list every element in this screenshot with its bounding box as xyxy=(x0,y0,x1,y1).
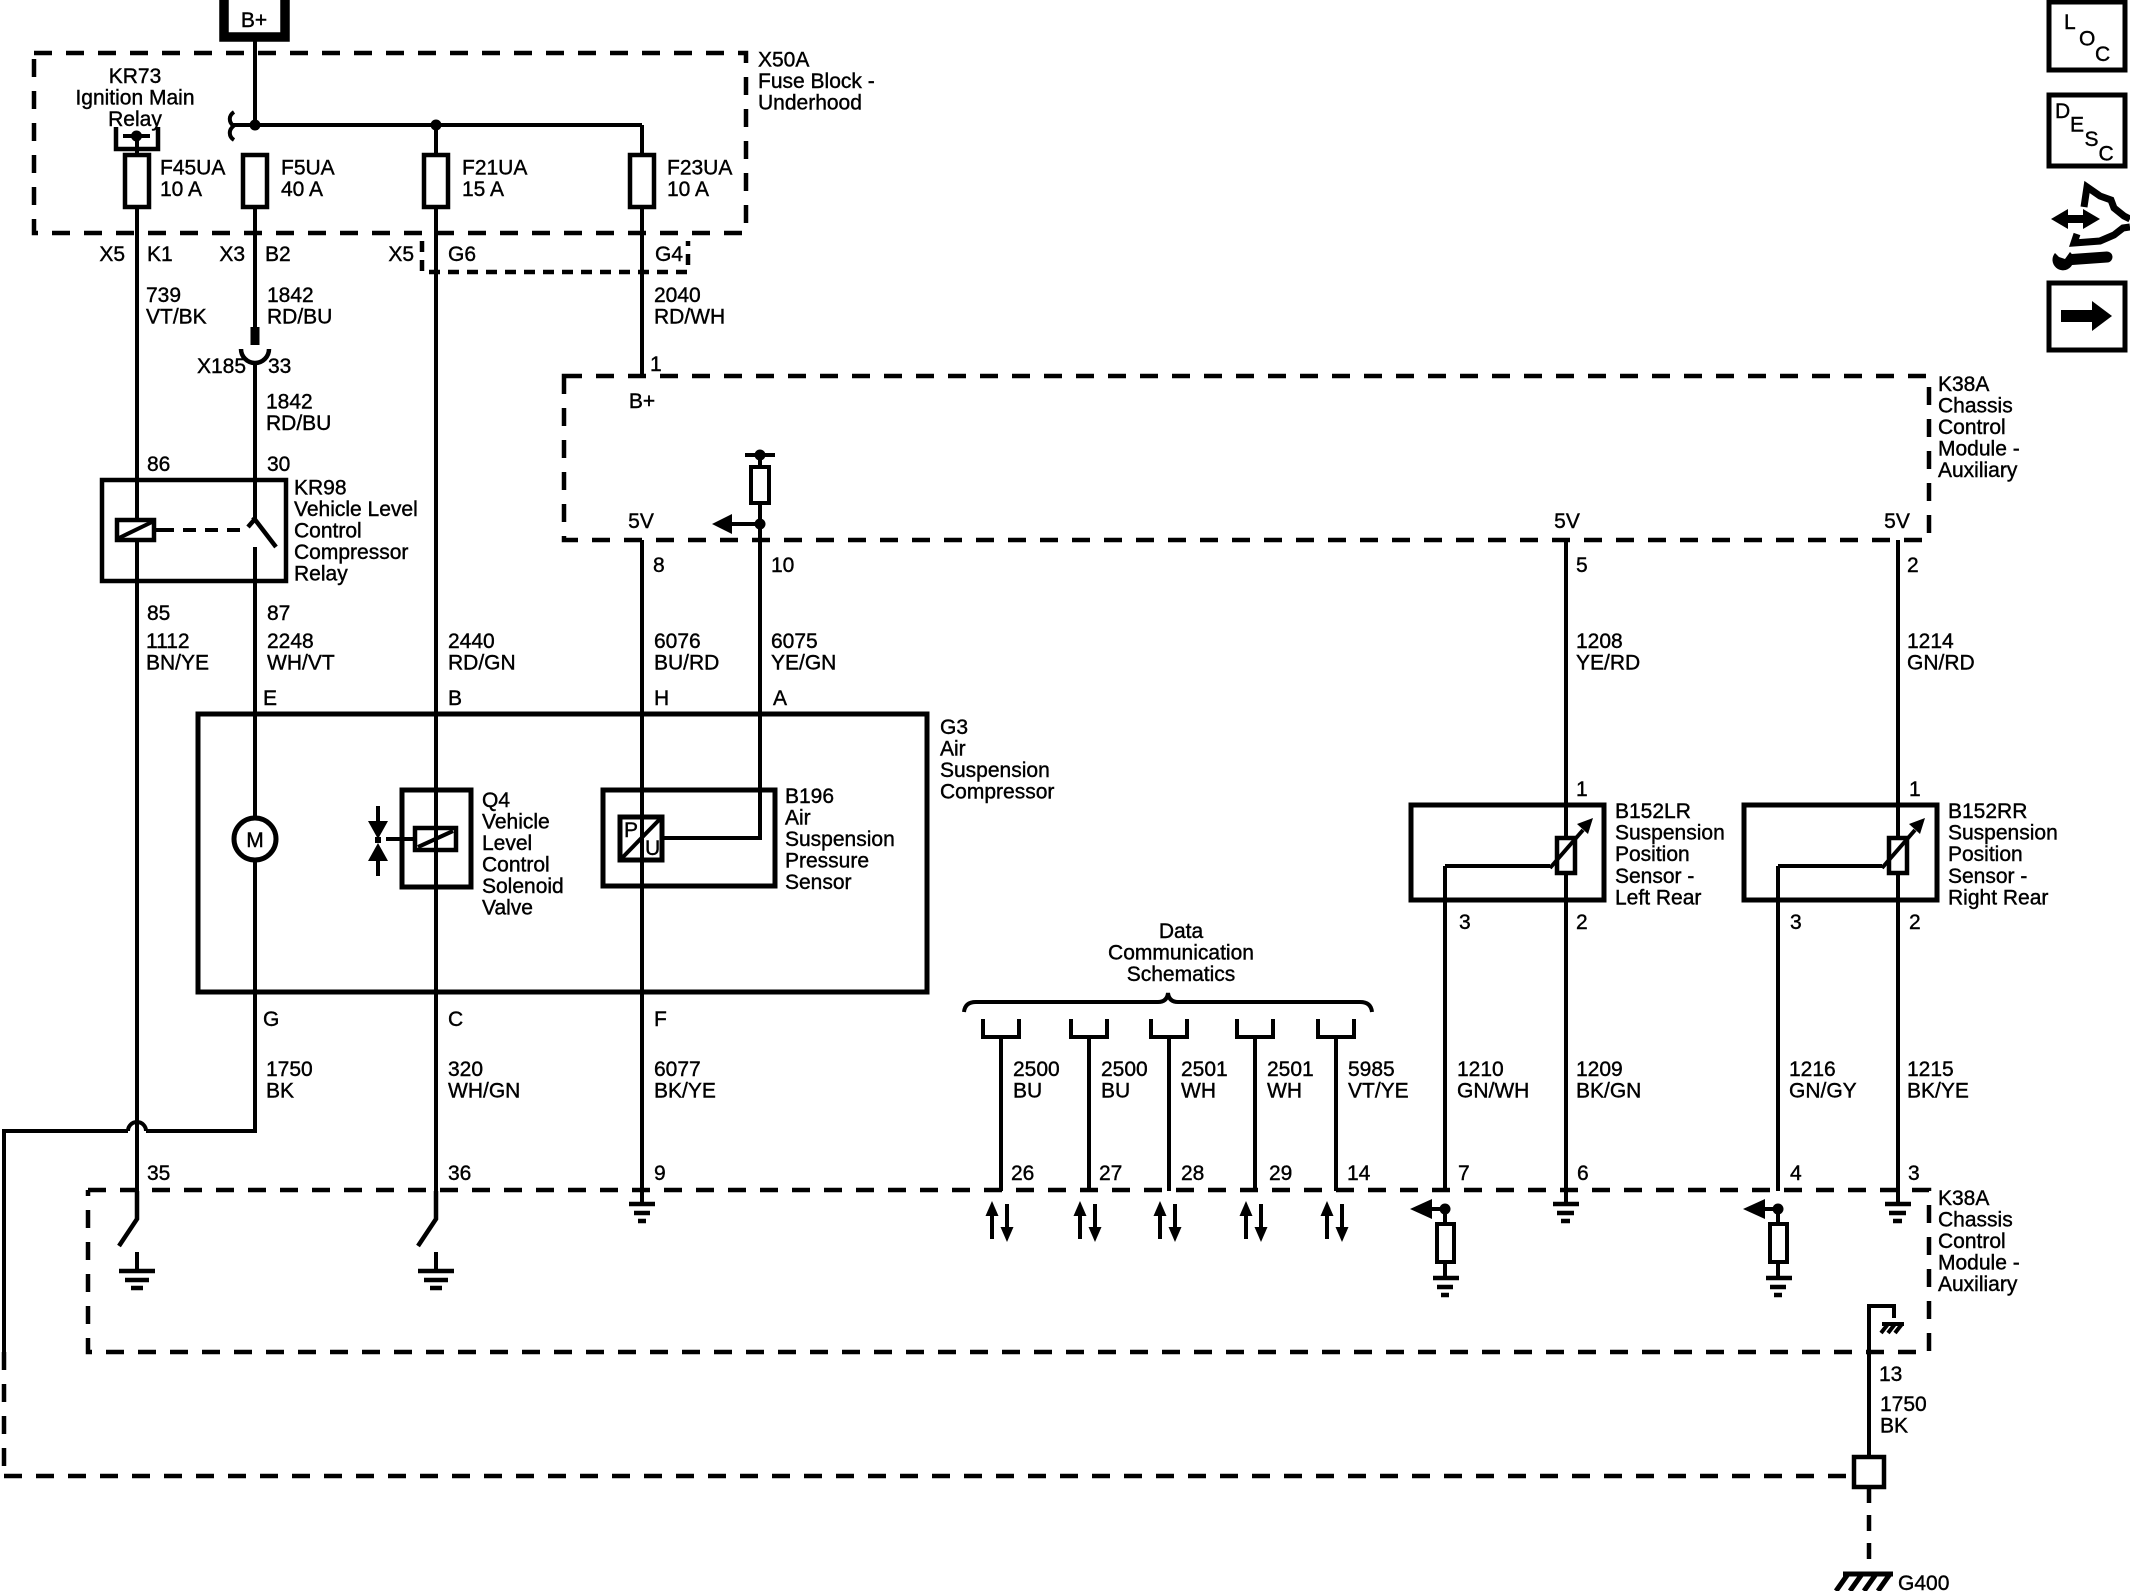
svg-text:2500: 2500 xyxy=(1013,1058,1060,1081)
svg-text:X5: X5 xyxy=(99,243,125,266)
svg-text:Auxiliary: Auxiliary xyxy=(1938,1273,2018,1296)
svg-text:VT/BK: VT/BK xyxy=(146,306,207,329)
wire 2248 WH/VT xyxy=(253,581,257,714)
svg-text:B: B xyxy=(448,687,462,710)
module K38A top dashed box xyxy=(564,376,1929,540)
solenoid Q4 box xyxy=(402,790,471,887)
bus wire xyxy=(233,123,642,127)
svg-text:8: 8 xyxy=(653,554,665,577)
svg-text:Compressor: Compressor xyxy=(940,781,1054,804)
svg-text:C: C xyxy=(2095,43,2110,66)
svg-text:Air: Air xyxy=(785,807,811,830)
data connector 5 xyxy=(1318,1019,1354,1037)
svg-text:L: L xyxy=(2064,11,2076,34)
svg-text:7: 7 xyxy=(1458,1162,1470,1185)
svg-text:2500: 2500 xyxy=(1101,1058,1148,1081)
motor M xyxy=(234,818,276,860)
svg-text:RD/BU: RD/BU xyxy=(267,306,332,329)
svg-text:3: 3 xyxy=(1459,911,1471,934)
svg-text:B2: B2 xyxy=(265,243,291,266)
internal signal arrow pin 10 xyxy=(730,522,760,526)
svg-text:E: E xyxy=(2070,114,2084,137)
svg-text:6077: 6077 xyxy=(654,1058,701,1081)
icon arrow box xyxy=(2049,283,2125,350)
wire 1214 GN/RD xyxy=(1896,540,1900,838)
svg-text:87: 87 xyxy=(267,602,290,625)
svg-text:1112: 1112 xyxy=(146,630,190,653)
svg-text:X50A: X50A xyxy=(758,49,809,72)
wire E to motor xyxy=(253,714,257,818)
svg-text:Left Rear: Left Rear xyxy=(1615,887,1701,910)
svg-text:14: 14 xyxy=(1347,1162,1371,1185)
svg-text:1: 1 xyxy=(1909,778,1921,801)
Q4 valve symbol xyxy=(376,806,380,821)
svg-text:Chassis: Chassis xyxy=(1938,395,2013,418)
fuse block X50A dashed box xyxy=(34,53,746,233)
ground pin 35 xyxy=(135,1252,139,1271)
icon double arrow xyxy=(2064,215,2087,223)
svg-text:B152LR: B152LR xyxy=(1615,800,1691,823)
wire 1750 BK from pin G xyxy=(146,992,255,1131)
svg-text:30: 30 xyxy=(267,453,290,476)
svg-text:Control: Control xyxy=(1938,1230,2006,1253)
svg-text:BK: BK xyxy=(266,1080,294,1103)
svg-text:1750: 1750 xyxy=(1880,1393,1927,1416)
svg-text:5: 5 xyxy=(1576,554,1588,577)
databus arrows pin 29 xyxy=(1246,1204,1261,1239)
svg-text:Module -: Module - xyxy=(1938,438,2020,461)
svg-text:GN/WH: GN/WH xyxy=(1457,1080,1529,1103)
internal chassis ground pin 13 xyxy=(1869,1306,1894,1352)
wire 739 VT/BK xyxy=(135,207,139,480)
wire bus to F21UA xyxy=(434,125,438,155)
svg-text:BU: BU xyxy=(1101,1080,1130,1103)
svg-text:2248: 2248 xyxy=(267,630,314,653)
svg-text:BK/GN: BK/GN xyxy=(1576,1080,1641,1103)
svg-text:Sensor -: Sensor - xyxy=(1948,865,2027,888)
svg-text:6076: 6076 xyxy=(654,630,701,653)
wire motor to pin G xyxy=(253,860,257,992)
svg-text:9: 9 xyxy=(654,1162,666,1185)
svg-text:320: 320 xyxy=(448,1058,483,1081)
svg-text:Communication: Communication xyxy=(1108,942,1254,965)
svg-text:85: 85 xyxy=(147,602,170,625)
data brace xyxy=(964,993,1372,1012)
svg-text:BK/YE: BK/YE xyxy=(1907,1080,1969,1103)
svg-text:F5UA: F5UA xyxy=(281,157,335,180)
wire LR pin 2 xyxy=(1564,873,1568,1191)
module K38A bottom dashed box xyxy=(88,1190,1929,1352)
svg-text:BU/RD: BU/RD xyxy=(654,652,719,675)
svg-text:1: 1 xyxy=(1576,778,1588,801)
databus arrows pin 14 xyxy=(1327,1204,1342,1239)
data connector 1 xyxy=(983,1019,1019,1037)
svg-text:G: G xyxy=(263,1008,279,1031)
svg-text:Solenoid: Solenoid xyxy=(482,875,564,898)
dashed ground distribution left riser xyxy=(2,1352,7,1476)
connector X5 dashed outline xyxy=(422,241,688,272)
wire 6076 BU/RD xyxy=(640,540,644,714)
svg-text:Suspension: Suspension xyxy=(1948,822,2058,845)
svg-text:2: 2 xyxy=(1909,911,1921,934)
wire B through Q4 xyxy=(434,714,438,992)
svg-text:G400: G400 xyxy=(1898,1572,1949,1591)
svg-text:36: 36 xyxy=(448,1162,471,1185)
internal arrow pin 4 xyxy=(1765,1207,1778,1211)
svg-text:Vehicle: Vehicle xyxy=(482,811,550,834)
icon LOC box xyxy=(2049,2,2125,70)
ground pin 6 xyxy=(1564,1191,1568,1204)
svg-text:2440: 2440 xyxy=(448,630,495,653)
svg-text:10 A: 10 A xyxy=(667,178,709,201)
svg-text:B196: B196 xyxy=(785,785,834,808)
relay KR98 coil xyxy=(135,480,139,581)
relay KR98 switch xyxy=(253,480,257,519)
svg-text:O: O xyxy=(2079,28,2095,51)
internal resistor pin 4 xyxy=(1776,1209,1780,1224)
svg-text:KR73: KR73 xyxy=(109,65,162,88)
fuse F21UA xyxy=(424,155,448,207)
svg-text:10 A: 10 A xyxy=(160,178,202,201)
wire 2040 RD/WH xyxy=(640,207,644,376)
svg-text:X5: X5 xyxy=(388,243,414,266)
svg-text:F45UA: F45UA xyxy=(160,157,225,180)
svg-text:Compressor: Compressor xyxy=(294,541,408,564)
svg-text:1215: 1215 xyxy=(1907,1058,1954,1081)
svg-text:BN/YE: BN/YE xyxy=(146,652,209,675)
svg-text:Valve: Valve xyxy=(482,897,533,920)
databus arrows pin 28 xyxy=(1160,1204,1175,1239)
svg-text:6075: 6075 xyxy=(771,630,818,653)
svg-text:A: A xyxy=(773,687,787,710)
dashed ground distribution run xyxy=(4,1474,1854,1479)
pressure sensor B196 outer box xyxy=(603,790,775,886)
B196 P/U transducer square xyxy=(620,817,662,860)
wire 1842 RD/BU lower xyxy=(253,364,257,480)
svg-text:G6: G6 xyxy=(448,243,476,266)
icon vehicle outline xyxy=(2084,187,2130,219)
svg-text:1842: 1842 xyxy=(267,284,314,307)
svg-text:Module -: Module - xyxy=(1938,1252,2020,1275)
B152LR wiper wire xyxy=(1445,864,1550,868)
inline connector square xyxy=(1854,1457,1884,1487)
svg-text:F: F xyxy=(654,1008,667,1031)
svg-text:2: 2 xyxy=(1576,911,1588,934)
internal pull-up resistor xyxy=(745,453,775,457)
svg-text:X3: X3 xyxy=(219,243,245,266)
svg-text:3: 3 xyxy=(1790,911,1802,934)
svg-text:P: P xyxy=(624,819,638,842)
wire hop over 1112 xyxy=(128,1122,146,1131)
svg-text:Suspension: Suspension xyxy=(940,759,1050,782)
svg-text:86: 86 xyxy=(147,453,170,476)
wire 2440 RD/GN xyxy=(434,207,438,714)
svg-text:M: M xyxy=(246,829,264,852)
svg-text:28: 28 xyxy=(1181,1162,1204,1185)
svg-text:35: 35 xyxy=(147,1162,170,1185)
wire A into B196 xyxy=(662,714,760,838)
svg-text:6: 6 xyxy=(1577,1162,1589,1185)
svg-text:Control: Control xyxy=(1938,416,2006,439)
svg-text:RD/WH: RD/WH xyxy=(654,306,725,329)
position sensor B152LR box xyxy=(1411,805,1604,900)
svg-text:Control: Control xyxy=(482,854,550,877)
svg-text:KR98: KR98 xyxy=(294,477,347,500)
svg-text:Relay: Relay xyxy=(294,563,348,586)
wire 1750 BK to left edge xyxy=(4,1131,128,1352)
svg-text:Level: Level xyxy=(482,832,532,855)
svg-text:WH: WH xyxy=(1267,1080,1302,1103)
svg-text:GN/RD: GN/RD xyxy=(1907,652,1975,675)
svg-text:RD/GN: RD/GN xyxy=(448,652,516,675)
svg-text:X185: X185 xyxy=(197,355,246,378)
relay KR98 coil-contact dashed link xyxy=(161,528,243,532)
svg-text:5V: 5V xyxy=(1554,510,1580,533)
svg-text:1842: 1842 xyxy=(266,391,313,414)
svg-text:739: 739 xyxy=(146,284,181,307)
svg-text:F21UA: F21UA xyxy=(462,157,527,180)
icon wrench xyxy=(2072,257,2107,260)
svg-text:U: U xyxy=(645,837,660,860)
svg-text:E: E xyxy=(263,687,277,710)
svg-text:2: 2 xyxy=(1907,554,1919,577)
svg-text:13: 13 xyxy=(1879,1363,1902,1386)
ground pin 7 xyxy=(1433,1278,1459,1295)
svg-text:1750: 1750 xyxy=(266,1058,313,1081)
svg-text:29: 29 xyxy=(1269,1162,1292,1185)
svg-text:Suspension: Suspension xyxy=(1615,822,1725,845)
svg-text:B152RR: B152RR xyxy=(1948,800,2027,823)
B152RR potentiometer xyxy=(1889,838,1907,873)
ground pin 36 xyxy=(434,1252,438,1271)
svg-text:1210: 1210 xyxy=(1457,1058,1504,1081)
fuse F45UA xyxy=(125,155,149,207)
position sensor B152RR box xyxy=(1744,805,1937,900)
databus arrows pin 26 xyxy=(992,1204,1007,1239)
svg-text:BU: BU xyxy=(1013,1080,1042,1103)
svg-text:Fuse Block -: Fuse Block - xyxy=(758,70,875,93)
svg-text:27: 27 xyxy=(1099,1162,1122,1185)
svg-text:Sensor -: Sensor - xyxy=(1615,865,1694,888)
ground pin 9 xyxy=(640,1191,644,1204)
svg-text:Air: Air xyxy=(940,738,966,761)
junction node on bus at F21UA xyxy=(431,120,442,131)
svg-text:1208: 1208 xyxy=(1576,630,1623,653)
svg-text:Position: Position xyxy=(1948,843,2023,866)
svg-text:26: 26 xyxy=(1011,1162,1034,1185)
svg-text:Suspension: Suspension xyxy=(785,828,895,851)
svg-text:BK: BK xyxy=(1880,1415,1908,1438)
svg-text:H: H xyxy=(654,687,669,710)
data connector 2 xyxy=(1071,1019,1107,1037)
svg-text:1216: 1216 xyxy=(1789,1058,1836,1081)
svg-text:RD/BU: RD/BU xyxy=(266,412,331,435)
svg-text:GN/GY: GN/GY xyxy=(1789,1080,1857,1103)
wire 1112 BN/YE xyxy=(135,581,139,1191)
internal resistor pin 7 xyxy=(1443,1209,1447,1224)
svg-text:BK/YE: BK/YE xyxy=(654,1080,716,1103)
splice bracket on bus xyxy=(230,112,234,140)
wire bus to F23UA xyxy=(640,125,644,155)
svg-text:10: 10 xyxy=(771,554,794,577)
svg-text:Ignition Main: Ignition Main xyxy=(75,87,194,110)
svg-text:G3: G3 xyxy=(940,716,968,739)
svg-text:C: C xyxy=(448,1008,463,1031)
ground G400 xyxy=(1843,1572,1893,1577)
svg-text:Underhood: Underhood xyxy=(758,92,862,115)
ground pin 3 xyxy=(1885,1204,1911,1221)
relay KR98 box xyxy=(102,480,286,581)
svg-text:Data: Data xyxy=(1159,920,1204,943)
svg-text:Sensor: Sensor xyxy=(785,871,852,894)
svg-text:WH: WH xyxy=(1181,1080,1216,1103)
junction node on bus at F5UA xyxy=(250,120,261,131)
relay KR73 contact symbol xyxy=(116,127,158,149)
svg-text:2501: 2501 xyxy=(1267,1058,1314,1081)
svg-text:Chassis: Chassis xyxy=(1938,1209,2013,1232)
dashed wire to G400 xyxy=(1867,1487,1872,1565)
svg-text:4: 4 xyxy=(1790,1162,1802,1185)
svg-text:S: S xyxy=(2085,128,2099,151)
svg-text:2501: 2501 xyxy=(1181,1058,1228,1081)
svg-text:Auxiliary: Auxiliary xyxy=(1938,459,2018,482)
svg-text:K38A: K38A xyxy=(1938,373,1989,396)
svg-text:F23UA: F23UA xyxy=(667,157,732,180)
databus arrows pin 27 xyxy=(1080,1204,1095,1239)
svg-text:WH/GN: WH/GN xyxy=(448,1080,520,1103)
wire 1842 RD/BU upper xyxy=(253,207,257,327)
svg-text:K38A: K38A xyxy=(1938,1187,1989,1210)
svg-text:Right Rear: Right Rear xyxy=(1948,887,2048,910)
svg-text:5985: 5985 xyxy=(1348,1058,1395,1081)
wire H through sensor xyxy=(640,714,644,992)
wire 320 WH/GN xyxy=(434,992,438,1191)
svg-text:G4: G4 xyxy=(655,243,683,266)
svg-text:Position: Position xyxy=(1615,843,1690,866)
wire 6077 BK/YE xyxy=(640,992,644,1191)
svg-text:Schematics: Schematics xyxy=(1127,963,1236,986)
svg-text:YE/GN: YE/GN xyxy=(771,652,836,675)
svg-text:5V: 5V xyxy=(1884,510,1910,533)
svg-text:VT/YE: VT/YE xyxy=(1348,1080,1409,1103)
svg-text:Vehicle Level: Vehicle Level xyxy=(294,498,418,521)
svg-text:YE/RD: YE/RD xyxy=(1576,652,1640,675)
wire 1208 YE/RD xyxy=(1564,540,1568,838)
data connector 3 xyxy=(1151,1019,1187,1037)
icon DESC box xyxy=(2049,95,2125,166)
svg-text:2040: 2040 xyxy=(654,284,701,307)
svg-text:Q4: Q4 xyxy=(482,789,510,812)
svg-text:1209: 1209 xyxy=(1576,1058,1623,1081)
fuse F23UA xyxy=(630,155,654,207)
ground pin 4 xyxy=(1766,1278,1792,1295)
connector X185 inline xyxy=(251,327,260,345)
B+ battery feed symbol xyxy=(224,0,285,37)
wire KR73 to fuse F45UA xyxy=(135,136,139,155)
internal switch pin 36 xyxy=(418,1191,436,1246)
svg-text:15 A: 15 A xyxy=(462,178,504,201)
Q4 coil xyxy=(415,828,456,850)
svg-text:5V: 5V xyxy=(628,510,654,533)
svg-text:B+: B+ xyxy=(241,9,267,32)
B152LR potentiometer xyxy=(1557,838,1575,873)
svg-text:33: 33 xyxy=(268,355,291,378)
svg-text:Pressure: Pressure xyxy=(785,850,869,873)
compressor G3 box xyxy=(198,714,927,992)
wire B+ to bus xyxy=(253,41,257,125)
svg-text:40 A: 40 A xyxy=(281,178,323,201)
svg-text:3: 3 xyxy=(1908,1162,1920,1185)
internal arrow pin 7 xyxy=(1432,1207,1445,1211)
wire RR pin 2 xyxy=(1896,873,1900,1204)
svg-text:1: 1 xyxy=(650,353,662,376)
svg-text:WH/VT: WH/VT xyxy=(267,652,335,675)
wire 6075 YE/GN xyxy=(758,540,762,714)
fuse F5UA xyxy=(243,155,267,207)
svg-text:D: D xyxy=(2055,100,2070,123)
wire 1750 BK right xyxy=(1867,1352,1871,1457)
B152RR wiper wire xyxy=(1778,864,1882,868)
svg-text:C: C xyxy=(2099,143,2114,166)
internal switch pin 35 xyxy=(119,1191,137,1246)
svg-text:K1: K1 xyxy=(147,243,173,266)
data connector 4 xyxy=(1237,1019,1273,1037)
svg-text:1214: 1214 xyxy=(1907,630,1954,653)
svg-text:Control: Control xyxy=(294,520,362,543)
svg-text:B+: B+ xyxy=(629,390,655,413)
